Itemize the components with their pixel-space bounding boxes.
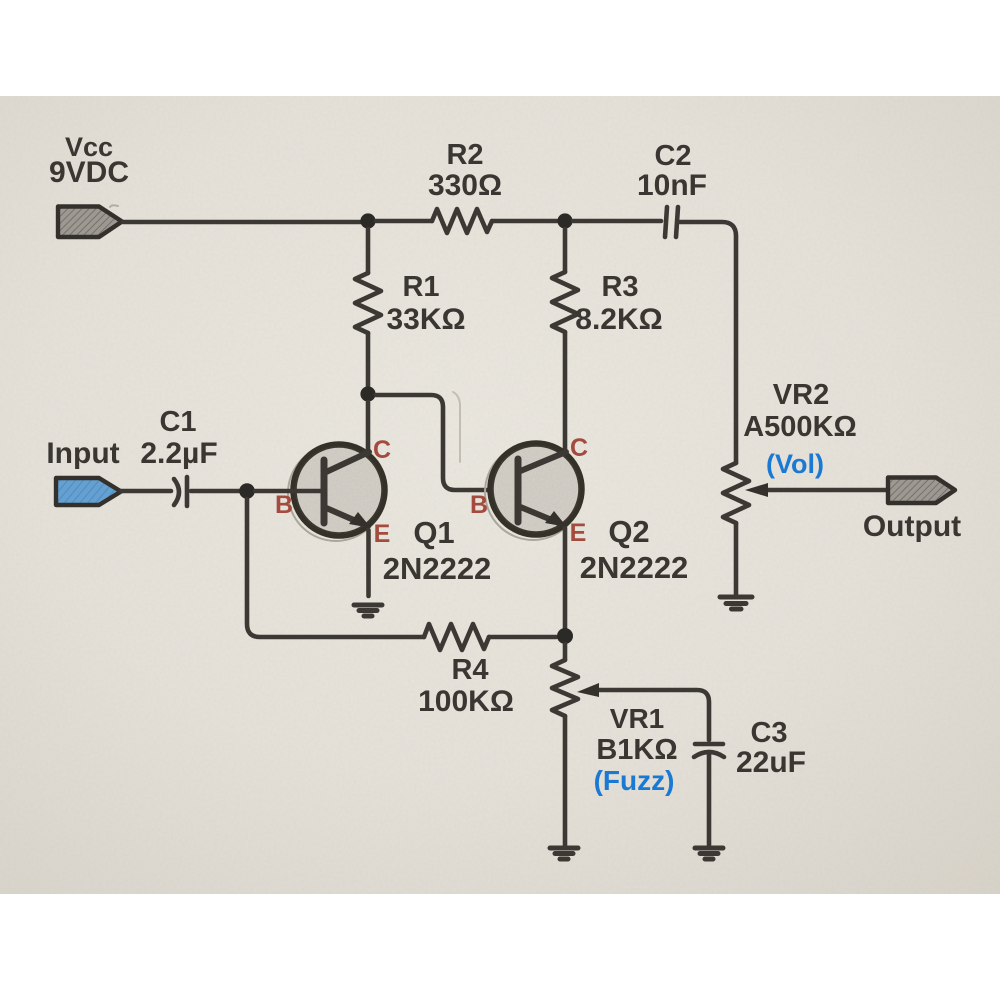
wire node C to Q2 base — [376, 395, 491, 490]
svg-text:Output: Output — [863, 510, 961, 543]
label VR1 B1KΩ (Fuzz) — [594, 703, 678, 796]
resistor R1 — [355, 273, 381, 333]
capacitor C1 — [174, 477, 187, 506]
svg-text:E: E — [570, 519, 587, 547]
svg-text:330Ω: 330Ω — [428, 169, 502, 202]
resistor R2 — [432, 209, 492, 233]
node D (input / Q1 base / feedback junction) — [239, 483, 255, 499]
connector Input — [56, 478, 121, 505]
label R2 330Ω — [428, 139, 502, 202]
label Output — [863, 510, 961, 543]
wire Q2 emitter down to node E — [563, 528, 568, 628]
label R3 8.2KΩ — [575, 271, 662, 336]
node C (R1 bottom / Q1 collector / wire to Q2 base) — [360, 386, 375, 401]
transistor Q2 — [485, 442, 583, 540]
wire R1 to node C — [366, 333, 371, 386]
connector Vcc — [58, 207, 122, 238]
potentiometer VR2 — [723, 463, 749, 523]
svg-text:2.2µF: 2.2µF — [140, 437, 217, 470]
wire node A to R2 — [376, 219, 432, 224]
svg-text:2N2222: 2N2222 — [580, 550, 689, 585]
svg-text:B: B — [470, 491, 488, 519]
svg-text:B: B — [275, 491, 293, 519]
label Q1 2N2222 — [383, 515, 492, 586]
svg-text:R3: R3 — [601, 271, 638, 303]
svg-text:2N2222: 2N2222 — [383, 551, 492, 586]
label C1 2.2µF / Input — [46, 406, 217, 470]
label R1 33KΩ — [386, 271, 465, 336]
svg-text:C1: C1 — [159, 406, 196, 438]
wire Q1 emitter down — [366, 530, 371, 596]
wire C1 to node D — [191, 489, 239, 494]
svg-text:B1KΩ: B1KΩ — [596, 734, 677, 766]
ground (Q1 emitter) — [354, 605, 382, 616]
potentiometer VR1 — [563, 644, 568, 660]
wire R4 to node E — [489, 635, 556, 640]
label C2 10nF — [637, 140, 707, 202]
svg-text:8.2KΩ: 8.2KΩ — [575, 303, 662, 336]
svg-text:R4: R4 — [451, 654, 488, 686]
svg-text:Q1: Q1 — [413, 515, 454, 550]
node A (Vcc rail / R1 top junction) — [360, 213, 375, 228]
ground (C3 bottom) — [695, 848, 723, 859]
wire node B down to R3 — [563, 229, 568, 272]
svg-text:100KΩ: 100KΩ — [418, 685, 514, 718]
svg-text:C3: C3 — [750, 717, 787, 749]
label R4 100KΩ — [418, 654, 514, 718]
ground (VR1 bottom) — [550, 848, 578, 859]
connector Output — [888, 478, 955, 504]
wire R2 to node B — [492, 219, 557, 224]
wire node A down to R1 — [366, 229, 371, 273]
transistor Q1 — [288, 443, 386, 541]
resistor R3 — [552, 272, 578, 332]
svg-text:33KΩ: 33KΩ — [386, 303, 465, 336]
wire Vcc rail to node A — [123, 220, 361, 225]
svg-text:R2: R2 — [446, 139, 483, 171]
label C3 22uF — [736, 717, 806, 779]
svg-text:VR1: VR1 — [610, 703, 664, 734]
wire C3 to ground — [707, 755, 712, 845]
wire C2 to VR2 top — [680, 222, 736, 463]
node B (R2 / R3 / C2 junction) — [557, 213, 572, 228]
wire Input to C1 — [121, 489, 171, 494]
svg-text:(Vol): (Vol) — [766, 449, 824, 479]
wire node C to Q1 collector — [366, 402, 371, 452]
VR2 wiper arrow — [745, 483, 888, 497]
svg-text:10nF: 10nF — [637, 169, 707, 202]
capacitor C3 — [694, 744, 724, 757]
svg-text:22uF: 22uF — [736, 746, 806, 779]
label Vcc 9VDC — [49, 132, 129, 189]
ground (VR2 bottom) — [720, 597, 752, 609]
label Q2 2N2222 — [580, 514, 689, 585]
svg-text:Q2: Q2 — [608, 514, 649, 549]
node E (Q2 emitter / R4 / VR1 junction) — [557, 628, 573, 644]
svg-text:R1: R1 — [402, 271, 439, 303]
svg-text:E: E — [374, 520, 391, 548]
wire R3 to Q2 collector — [563, 332, 568, 452]
label VR2 A500KΩ (Vol) — [743, 379, 857, 479]
svg-text:C: C — [570, 434, 588, 462]
resistor R4 — [424, 624, 489, 650]
svg-text:Input: Input — [46, 437, 119, 470]
svg-text:C: C — [373, 436, 391, 464]
capacitor C2 — [665, 207, 678, 237]
wire feedback node D down to R4 — [247, 499, 424, 637]
wire node B to C2 — [573, 219, 661, 224]
svg-text:VR2: VR2 — [773, 379, 829, 411]
svg-text:9VDC: 9VDC — [49, 156, 129, 189]
svg-text:A500KΩ: A500KΩ — [743, 411, 857, 443]
VR1 wiper arrow — [577, 683, 709, 740]
wire node D to Q1 base — [255, 489, 322, 494]
svg-text:(Fuzz): (Fuzz) — [594, 765, 675, 796]
svg-text:C2: C2 — [654, 140, 691, 172]
